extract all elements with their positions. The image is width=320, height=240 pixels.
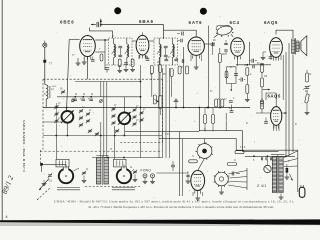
- tube V6 6AQ5 output: [271, 107, 282, 129]
- capacitor left of V7: [171, 161, 175, 171]
- wire speaker links: [298, 42, 300, 44]
- capacitor bus b: [81, 99, 85, 100]
- margin mark bottom: [6, 215, 8, 219]
- capacitor right top: [269, 53, 273, 58]
- wire IF out verticals: [159, 65, 170, 158]
- wire V3 grid top: [164, 30, 197, 37]
- wire 6BA6 grid-cap drop: [163, 25, 165, 40]
- trimmer stack CV1 right: [79, 109, 90, 127]
- wire V1 cathode down: [87, 57, 89, 80]
- output transformer: [292, 38, 299, 55]
- label 6BA6: [139, 19, 154, 24]
- svg-text:4 4l: 4 4l: [165, 134, 169, 136]
- svg-text:1M: 1M: [157, 62, 160, 64]
- wire bus y81.5: [75, 81, 141, 83]
- wire right vert 1: [285, 52, 287, 156]
- wire long horiz right: [236, 64, 271, 66]
- capacitor V1 bypass: [105, 68, 109, 73]
- svg-text:77: 77: [49, 61, 53, 65]
- scan speckle noise: [43, 14, 309, 205]
- wire bottom rails: [57, 188, 80, 190]
- wire bottom rails K2: [112, 188, 135, 190]
- resistor right of S1: [228, 163, 237, 166]
- dashed line y151: [40, 150, 162, 152]
- resistor R mid-b: [159, 65, 162, 73]
- label 700c: [88, 98, 92, 100]
- wire IFT1 to V2 grid: [132, 40, 136, 42]
- switch block above K2: [114, 159, 127, 167]
- antenna trimmer capacitor: [91, 19, 102, 28]
- speaker: [299, 36, 307, 56]
- svg-text:1M: 1M: [264, 76, 267, 78]
- bus y122 segment: [43, 121, 62, 123]
- wire top link lower: [90, 28, 113, 39]
- svg-text:3/1: 3/1: [49, 179, 53, 183]
- capacitor C mid-a: [146, 59, 150, 61]
- wire V6 top link: [266, 93, 276, 106]
- svg-text:6AQ5: 6AQ5: [264, 20, 278, 25]
- wire V1 plate to IFT1: [95, 39, 108, 41]
- resistor V2 screen: [131, 59, 134, 67]
- label 6AT6: [189, 20, 203, 25]
- bus y107.5: [43, 107, 250, 109]
- wire mid cluster top: [148, 57, 177, 65]
- coil can K1: [59, 167, 73, 183]
- capacitor below S1: [232, 172, 240, 176]
- svg-text:4B: 4B: [305, 91, 308, 93]
- wire S1 up: [204, 139, 206, 144]
- capacitor V2 bypass: [124, 63, 129, 72]
- capacitor V4 b: [249, 59, 257, 63]
- wire V4 right: [249, 42, 251, 65]
- resistor S1 feed d: [212, 108, 215, 132]
- switch circle: [264, 160, 271, 173]
- wire CV2 bottom: [123, 124, 125, 135]
- label Z4/1: [257, 184, 267, 188]
- wire vert x183.5: [183, 47, 185, 108]
- dashed box RF/osc bottom: [120, 142, 163, 144]
- wire S2 fan: [228, 171, 247, 189]
- IF transformer T1: [109, 38, 133, 65]
- wire left bottom: [42, 164, 59, 172]
- capacitor V7 left column: [186, 171, 191, 183]
- resistor V3 load: [218, 48, 221, 108]
- socket S1 top-view: [195, 142, 212, 160]
- resistor R mid-c: [170, 69, 173, 77]
- capacitor V3 grid: [177, 32, 183, 36]
- resistor tone 2 slant: [305, 91, 310, 107]
- wire right vert 2: [288, 43, 290, 156]
- ground V5: [261, 52, 266, 60]
- dashed mech link horizontal: [85, 186, 140, 188]
- switch block above K1: [56, 159, 69, 167]
- fono jack 2: [151, 174, 155, 178]
- wire vert x56.3: [55, 125, 57, 159]
- wire loop D: [125, 131, 199, 133]
- svg-text:Z 4/1: Z 4/1: [257, 184, 267, 188]
- wire CV1 top: [66, 108, 68, 111]
- wire bus y157.5 bottom: [92, 157, 162, 159]
- capacitor C mid-d: [182, 59, 184, 63]
- wire V3 pins: [191, 55, 202, 62]
- wire antenna down: [44, 47, 46, 84]
- wire V1 grid slant: [67, 40, 70, 111]
- caption line 1: [54, 200, 294, 205]
- RC network detector: [225, 67, 238, 91]
- label 77: [49, 61, 53, 65]
- wire V7 pins: [193, 192, 203, 198]
- wire V1 screen: [95, 40, 105, 70]
- wire S1 down to V7: [198, 158, 205, 170]
- svg-text:5 5 5: 5 5 5: [240, 147, 246, 149]
- svg-text:FONO: FONO: [141, 169, 152, 173]
- svg-text:6C4: 6C4: [230, 20, 240, 25]
- capacitor V6 grid: [260, 98, 264, 107]
- trimmer left bottom: [48, 173, 52, 177]
- ground fono 1: [143, 178, 148, 184]
- margin text vertical: [22, 120, 26, 172]
- wire K1 leads: [58, 164, 79, 171]
- left page edge line: [1, 0, 3, 221]
- heater ticks: [261, 157, 271, 160]
- capacitor V3 left: [178, 39, 183, 43]
- capacitor col-a: [239, 78, 246, 82]
- tube V4 6C4: [231, 38, 245, 60]
- variable capacitor CV1: [61, 110, 74, 123]
- svg-text:6AQ5: 6AQ5: [268, 94, 281, 99]
- trimmer circle b: [99, 99, 103, 103]
- wire vert x208.5: [208, 26, 210, 109]
- capacitor S1 feed: [229, 101, 233, 103]
- label 6AQ5 output: [264, 20, 278, 25]
- dashed box RF/osc top: [43, 78, 163, 80]
- wire V6 bottom pins: [274, 125, 280, 131]
- socket S2 top-view: [214, 171, 230, 187]
- resistor heater: [235, 151, 244, 154]
- wire S2 fan bus: [246, 168, 248, 190]
- electrolytic capacitor: [286, 164, 289, 177]
- margin handwriting: [0, 174, 15, 195]
- wire V2 plate to IFT2: [149, 40, 154, 42]
- resistor S1 feed a: [215, 99, 218, 107]
- wire loop C: [159, 139, 298, 192]
- capacitor tone: [303, 85, 311, 89]
- ground fono 2: [150, 178, 155, 184]
- wire right vert 3: [292, 55, 294, 153]
- node antenna tap: [43, 60, 46, 63]
- wire osc verticals upper: [101, 82, 107, 97]
- potentiometer volume: [155, 96, 163, 116]
- ground transformer: [279, 194, 284, 200]
- wire V4 top: [216, 26, 230, 28]
- wire tone drop: [305, 107, 310, 115]
- svg-text:4B: 4B: [222, 54, 225, 56]
- label FONO: [141, 169, 152, 173]
- volume wiper arrow: [263, 89, 271, 91]
- bus y96.8: [57, 96, 141, 98]
- resistor R mid-d: [178, 66, 181, 74]
- ground V1 cathode: [82, 57, 87, 65]
- dashed box RF/osc left: [42, 79, 44, 150]
- wire loop B: [225, 113, 227, 131]
- label 700b: [80, 98, 84, 100]
- capacitor C mid-c: [174, 59, 178, 61]
- dashed mech link diagonal: [37, 187, 51, 200]
- wire trimmer to 6BA6 top: [101, 24, 164, 26]
- arrow wave: [39, 179, 49, 191]
- punch hole right: [200, 8, 207, 15]
- resistor col-b 2: [261, 72, 264, 87]
- resistor col-b 3: [261, 87, 264, 113]
- trimmer row mid: [88, 129, 119, 136]
- wire V2 top cap: [142, 33, 144, 36]
- power transformer: [271, 155, 285, 194]
- IF transformer T2: [154, 38, 178, 65]
- capacitor C mid-b: [164, 59, 168, 61]
- tube V5 6AQ5: [270, 38, 283, 61]
- wire K2 leads: [124, 165, 134, 172]
- ground V2 screen: [130, 67, 135, 72]
- mains plug: [299, 185, 305, 197]
- ground S2: [219, 186, 224, 194]
- wire V5 pins: [271, 55, 281, 60]
- wire V6 left: [256, 112, 287, 114]
- antenna coil L1: [45, 85, 50, 108]
- dashed box RF/osc right: [162, 79, 164, 142]
- tube V3 6AT6: [188, 37, 204, 59]
- fono jack 1: [143, 174, 147, 178]
- wire V5 top to OT: [276, 30, 293, 38]
- bottom right white sliver: [240, 225, 320, 226]
- ground V2 cathode: [117, 71, 122, 73]
- trimmer right of K2: [133, 170, 138, 182]
- label 6C4: [230, 20, 240, 25]
- wire CV2 top: [123, 97, 125, 113]
- coil can K2: [117, 167, 131, 183]
- label 700a: [72, 98, 76, 100]
- capacitor V4 a: [211, 44, 215, 45]
- capacitor V4 left col: [224, 40, 227, 55]
- ground col-a: [245, 100, 250, 102]
- resistor R mid-e: [186, 66, 189, 74]
- wire gang bottom bus: [43, 135, 163, 137]
- svg-text:6BE6: 6BE6: [60, 20, 75, 25]
- wire vert x114.7: [114, 126, 116, 159]
- capacitor V1 pin: [91, 57, 95, 62]
- capacitor bus a: [73, 99, 77, 100]
- resistor col-a 1: [246, 68, 249, 76]
- arrow transformer: [290, 174, 293, 181]
- trimmer between cans: [82, 171, 87, 183]
- dashed line lower left vertical: [40, 150, 42, 166]
- wire mid verticals: [152, 73, 172, 97]
- capacitor V4 c: [253, 65, 254, 69]
- capacitor S1 right: [230, 105, 234, 113]
- wire left of V7: [180, 132, 183, 196]
- label 56: [60, 89, 63, 91]
- ground mid top A: [76, 58, 81, 65]
- tiny component value labels: [44, 36, 312, 171]
- wire CV1 bottom: [66, 123, 68, 136]
- antenna jack: [43, 41, 47, 48]
- ground electrolytic: [285, 177, 290, 179]
- wire loop A: [199, 108, 278, 152]
- resistor col-a 2: [246, 76, 249, 100]
- wire osc verticals: [101, 97, 107, 157]
- resistor left col x154.8: [153, 95, 156, 104]
- wire V1 grid horiz: [69, 39, 80, 41]
- label 1000: [52, 86, 57, 88]
- wire osc feedback: [212, 46, 214, 55]
- resistor V7 cathode: [189, 160, 198, 163]
- label 6BE6: [60, 20, 75, 25]
- resistor V2 cathode: [118, 59, 121, 70]
- ground V7: [195, 198, 200, 200]
- trimmer circle a: [71, 99, 75, 103]
- ground V3 cathode: [194, 59, 199, 70]
- trimmer stack CV2 left: [111, 107, 115, 125]
- wire right vert 4: [282, 55, 284, 100]
- label 3/1: [49, 179, 53, 183]
- capacitor V3 coupling: [213, 42, 215, 46]
- capacitor bus c: [89, 99, 93, 100]
- resistor R mid-a: [150, 66, 153, 74]
- node left bottom: [40, 163, 43, 166]
- label 6AQ5 second: [268, 94, 281, 99]
- resistor tone 1: [306, 70, 309, 82]
- resistor S1 feed b: [221, 99, 224, 107]
- oscillator coil T-osc: [96, 156, 108, 186]
- wire vert x140.5: [140, 65, 142, 158]
- punch hole left: [114, 7, 121, 14]
- wire V3 plate right: [204, 43, 211, 45]
- ground bus mid: [174, 99, 179, 107]
- trimmer ant coil: [61, 90, 65, 94]
- svg-text:ă: ă: [6, 215, 8, 219]
- trimmer stack CV2 right: [132, 108, 143, 126]
- tube V1 6BE6: [80, 36, 96, 60]
- svg-text:SABA RADIO - Mod. R 967/3: SABA RADIO - Mod. R 967/3: [22, 120, 26, 172]
- caption line 2: [88, 205, 274, 210]
- tube V7 detector: [191, 171, 205, 194]
- tube V2 6BA6: [136, 35, 149, 58]
- capacitor V6 cathode: [264, 118, 268, 124]
- wire V4 plate: [237, 56, 239, 66]
- heater bus: [245, 155, 295, 157]
- resistor V1 screen: [100, 54, 103, 61]
- svg-text:6AT6: 6AT6: [189, 20, 203, 25]
- trimmer stack CV1 left: [54, 103, 58, 125]
- wire fono to V7: [157, 172, 189, 174]
- resistor col-b 1: [261, 63, 264, 72]
- bottom scan gray strip: [0, 221, 320, 226]
- wire V2 pins: [139, 55, 146, 59]
- resistor S1 feed c: [204, 108, 207, 132]
- svg-text:6BA6: 6BA6: [139, 19, 154, 24]
- variable capacitor CV2: [118, 112, 131, 125]
- bottom scan black edge: [0, 219, 320, 225]
- ground left bottom: [42, 180, 47, 186]
- socket top-view near 6C4: [214, 24, 233, 37]
- transformer fan wires: [284, 151, 298, 167]
